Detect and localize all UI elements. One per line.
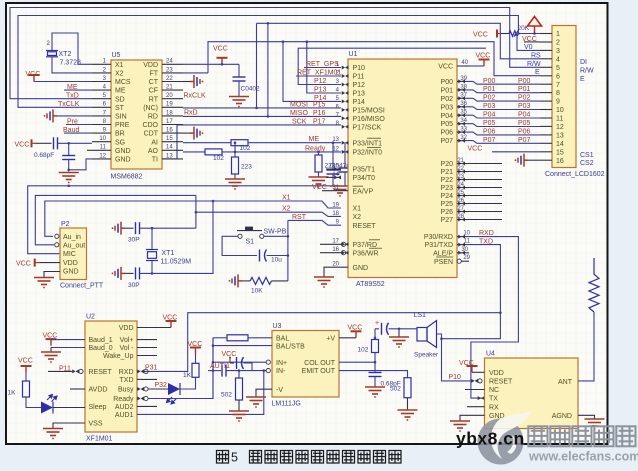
svg-text:P00: P00 [441, 79, 454, 86]
watermark elecfans CJK [528, 426, 635, 446]
svg-text:RESET: RESET [89, 369, 113, 376]
wire VCC to cap [36, 142, 52, 144]
svg-text:P03: P03 [518, 103, 531, 110]
svg-text:CS1: CS1 [580, 152, 594, 159]
svg-text:GND: GND [353, 265, 369, 272]
svg-text:P06: P06 [483, 129, 496, 136]
svg-text:P17: P17 [313, 119, 326, 126]
svg-text:16: 16 [556, 158, 564, 165]
U2 AVDD stub [70, 388, 85, 390]
svg-text:19: 19 [166, 102, 173, 108]
wire Pre stub [66, 124, 92, 126]
svg-text:AUD2: AUD2 [115, 404, 134, 411]
resistor 502 left [238, 371, 240, 378]
svg-text:PRE: PRE [115, 122, 130, 129]
svg-text:P34/T0: P34/T0 [353, 175, 376, 182]
svg-text:P32/INT0: P32/INT0 [353, 150, 383, 157]
svg-text:10K: 10K [251, 288, 263, 295]
svg-text:GND: GND [63, 268, 79, 275]
svg-text:RT: RT [149, 96, 159, 103]
connector P2 body [60, 228, 87, 280]
svg-text:102: 102 [358, 347, 369, 354]
wire Baud stub [64, 132, 92, 134]
svg-text:AUD1: AUD1 [115, 412, 134, 419]
U4 RX stub [467, 406, 485, 408]
wire SIN stub [57, 115, 92, 117]
wire XT2 top to U5 X1 [52, 33, 92, 64]
overlines [353, 138, 383, 248]
U2 Ready wire [137, 397, 144, 401]
wire SCK line [162, 125, 341, 159]
svg-text:VCC: VCC [312, 184, 327, 191]
LCD pin numbers and stubs [540, 31, 564, 165]
svg-text:6: 6 [556, 73, 560, 80]
svg-text:502: 502 [390, 386, 401, 393]
svg-text:2: 2 [556, 40, 560, 47]
svg-text:P12: P12 [314, 78, 327, 85]
svg-text:502: 502 [221, 392, 232, 399]
svg-text:P14: P14 [353, 99, 366, 106]
svg-text:CDT: CDT [144, 131, 159, 138]
svg-text:S1: S1 [246, 239, 255, 246]
wire U1 GND to ground [324, 267, 348, 277]
svg-text:GND: GND [115, 148, 131, 155]
svg-text:21: 21 [457, 158, 464, 164]
wire LCD pin2 VCC stub [524, 41, 540, 43]
svg-text:XT1: XT1 [162, 250, 175, 257]
capacitor C0402 [238, 64, 240, 77]
svg-text:28: 28 [457, 214, 464, 220]
svg-text:SIN: SIN [115, 114, 127, 121]
svg-text:P06: P06 [518, 129, 531, 136]
svg-text:RET_GPS: RET_GPS [306, 61, 339, 68]
svg-text:AT89S52: AT89S52 [356, 281, 385, 288]
svg-text:14: 14 [556, 141, 564, 148]
wire MISO RxD line [183, 115, 341, 117]
wire U3 -V to ground [256, 389, 272, 397]
svg-text:P05: P05 [518, 120, 531, 127]
svg-text:VSS: VSS [89, 421, 103, 428]
ground below 223 B [225, 179, 245, 190]
svg-text:AO: AO [148, 148, 159, 155]
svg-text:13: 13 [166, 153, 173, 159]
svg-text:IN+: IN+ [276, 360, 287, 367]
svg-text:24: 24 [457, 182, 464, 188]
svg-text:9: 9 [556, 99, 560, 106]
svg-text:P06: P06 [441, 130, 454, 137]
svg-text:VCC: VCC [188, 341, 203, 348]
wire speaker right to U4 RESET [437, 334, 442, 339]
svg-text:P16/MISO: P16/MISO [353, 116, 386, 123]
connector LCD1602 body [552, 26, 576, 168]
svg-text:X1: X1 [353, 206, 362, 213]
svg-text:23: 23 [457, 174, 464, 180]
svg-text:18: 18 [166, 110, 173, 116]
svg-text:MOSI: MOSI [290, 102, 308, 109]
svg-text:P26: P26 [441, 209, 454, 216]
svg-text:Connect_LCD1602: Connect_LCD1602 [545, 171, 605, 178]
wire P13 riser [307, 42, 341, 93]
wire LCD pin1 row [518, 33, 540, 35]
svg-text:1K: 1K [8, 390, 17, 397]
svg-text:VCC: VCC [476, 53, 491, 60]
svg-text:12: 12 [332, 146, 339, 152]
svg-text:Baud_1: Baud_1 [89, 337, 113, 344]
svg-text:P04: P04 [518, 112, 531, 119]
svg-text:26: 26 [457, 198, 464, 204]
svg-text:Sleep: Sleep [89, 404, 107, 411]
svg-text:VDD: VDD [119, 325, 134, 332]
svg-text:P05: P05 [483, 120, 496, 127]
wire U4 ANT to antenna [578, 312, 594, 381]
chip U3 LM111JG body [272, 331, 339, 398]
svg-text:SCK: SCK [292, 119, 307, 126]
wire RST line [288, 220, 341, 225]
svg-text:P11: P11 [353, 74, 365, 81]
svg-text:CDO: CDO [142, 122, 158, 129]
resistor 10K zigzag [242, 280, 250, 282]
svg-text:8: 8 [556, 90, 560, 97]
svg-text:P20: P20 [441, 161, 454, 168]
svg-text:EA/VP: EA/VP [353, 188, 374, 195]
svg-text:P00: P00 [518, 78, 531, 85]
wire bus line C [257, 23, 541, 59]
wire S1 left leg [222, 236, 257, 255]
capacitor 30P bottom [125, 272, 134, 274]
ground stub at speaker cap [398, 329, 400, 337]
svg-text:18: 18 [332, 211, 339, 217]
svg-text:30P: 30P [128, 237, 140, 244]
svg-text:X2: X2 [115, 71, 124, 78]
wire P2 GND [44, 272, 60, 278]
U1 P00-P07 bus to LCD [457, 80, 465, 82]
svg-text:P15/MOSI: P15/MOSI [353, 108, 385, 115]
wire VDD row to C0402 [183, 63, 239, 65]
svg-text:TI: TI [152, 157, 158, 164]
svg-text:PSEN: PSEN [434, 259, 453, 266]
svg-text:DI: DI [580, 59, 587, 66]
chip U5 MSM6882 body [111, 60, 162, 169]
svg-text:Speaker: Speaker [414, 352, 439, 359]
svg-text:COL OUT: COL OUT [304, 360, 336, 367]
svg-text:TX: TX [489, 396, 498, 403]
svg-text:VCC: VCC [222, 351, 237, 358]
U1 left stubs [326, 168, 341, 170]
U1 left pin rows [332, 62, 385, 272]
wire 102 top to speaker line [374, 329, 376, 338]
power arrow VCC top [528, 17, 542, 27]
svg-text:P24: P24 [441, 193, 454, 200]
svg-text:24: 24 [166, 59, 173, 65]
pot wiper to V0 [515, 30, 520, 36]
wire Ready line to U1 P32 [222, 151, 341, 153]
wire 30P top to X2 riser [140, 227, 196, 229]
wire loop B top [18, 16, 518, 108]
wire U5 pin12 GND route [69, 159, 92, 170]
svg-text:www.elecfans.com: www.elecfans.com [528, 450, 638, 464]
svg-text:P07: P07 [483, 137, 496, 144]
U2 AUD1 wire [137, 371, 264, 415]
svg-text:RxCLK: RxCLK [184, 92, 207, 99]
svg-text:RS: RS [531, 52, 541, 59]
wire P14 riser [283, 42, 341, 102]
svg-text:VCC: VCC [16, 261, 31, 268]
wire ME line to U1 P33 [248, 142, 341, 144]
U2 RXD pin bubble [137, 369, 144, 373]
svg-text:C0402: C0402 [241, 86, 261, 93]
svg-text:VCC: VCC [438, 64, 453, 71]
wire X1 jog to U1 [322, 201, 341, 208]
wire bus line E [298, 48, 486, 84]
chip U4 body [485, 358, 579, 429]
svg-text:(NC): (NC) [143, 105, 158, 112]
svg-text:AI: AI [151, 139, 158, 146]
U4 NC stub [465, 389, 485, 391]
svg-text:AUTI1: AUTI1 [210, 363, 230, 370]
svg-text:25: 25 [457, 190, 464, 196]
svg-text:XF1M01: XF1M01 [86, 436, 113, 443]
wire 30P bottom to X1 riser [140, 201, 214, 273]
svg-text:P27: P27 [441, 217, 454, 224]
ground below C0402 [229, 97, 249, 108]
svg-text:P10: P10 [449, 374, 462, 381]
svg-text:U4: U4 [486, 351, 495, 358]
wire VCC to MCS [34, 81, 92, 83]
wire line to Au_out [35, 195, 196, 244]
svg-text:U5: U5 [112, 52, 121, 59]
svg-text:P23: P23 [441, 185, 454, 192]
svg-text:VCC: VCC [348, 325, 363, 332]
wire U4 AGND to ground [578, 415, 595, 419]
svg-text:CS2: CS2 [580, 160, 594, 167]
svg-text:3: 3 [556, 48, 560, 55]
wire X2 line [196, 212, 341, 216]
svg-text:5: 5 [231, 451, 238, 465]
node junctions top [255, 22, 308, 118]
svg-text:15: 15 [166, 136, 173, 142]
svg-text:VDD: VDD [63, 260, 78, 267]
svg-text:0.68pF: 0.68pF [34, 152, 54, 159]
svg-text:MCS: MCS [115, 79, 131, 86]
watermark elecfans logo [478, 411, 533, 465]
svg-text:Wake_Up: Wake_Up [103, 353, 134, 360]
caption figure 5 fake CJK [217, 451, 229, 464]
wire RXD to U4 TX [467, 237, 518, 399]
signal ground LCD pin16 [515, 154, 528, 167]
svg-text:R/W: R/W [580, 67, 594, 74]
node dots [67, 142, 70, 187]
svg-text:12: 12 [99, 153, 106, 159]
wire LCD pin15 VCC [492, 151, 540, 153]
svg-text:RXD: RXD [479, 230, 494, 237]
svg-text:U2: U2 [86, 314, 95, 321]
svg-text:RX: RX [489, 404, 499, 411]
svg-text:27: 27 [457, 206, 464, 212]
svg-text:RD: RD [148, 114, 158, 121]
U2 Busy pin to LED P32 [137, 387, 144, 391]
svg-text:15: 15 [556, 149, 564, 156]
svg-text:CT: CT [149, 79, 159, 86]
svg-text:P04: P04 [441, 113, 454, 120]
svg-text:SW-PB: SW-PB [264, 229, 287, 236]
svg-text:MISO: MISO [290, 110, 308, 117]
svg-text:14: 14 [166, 145, 173, 151]
svg-text:SD: SD [115, 96, 125, 103]
wire MISO riser V2 [267, 23, 269, 116]
U5 pin stubs and names [92, 59, 183, 164]
resistor 102 horizontal A [231, 140, 248, 146]
signal ground at 10K [229, 274, 242, 287]
svg-text:EMIT OUT: EMIT OUT [302, 368, 336, 375]
svg-text:P13: P13 [353, 91, 366, 98]
wire cross link [234, 143, 236, 157]
signal ground at U5 CT [190, 75, 203, 88]
svg-text:21: 21 [166, 85, 173, 91]
wire AO row [183, 151, 205, 153]
wire cap to SG pin [58, 142, 93, 144]
svg-text:P05: P05 [441, 121, 454, 128]
svg-text:P01: P01 [518, 86, 531, 93]
svg-text:1K: 1K [183, 372, 192, 379]
svg-text:5: 5 [556, 65, 560, 72]
svg-text:17: 17 [166, 119, 173, 125]
wire U4 GND to ground [460, 415, 485, 421]
signal ground at U5 SIN [44, 109, 57, 122]
svg-text:P12: P12 [353, 82, 366, 89]
svg-text:U3: U3 [273, 323, 282, 330]
svg-text:P15: P15 [313, 102, 326, 109]
svg-text:ALE/P: ALE/P [433, 250, 453, 257]
svg-text:TxCLK: TxCLK [58, 101, 80, 108]
wire U5 pin11 stub [87, 149, 92, 151]
svg-text:1: 1 [556, 31, 560, 38]
svg-text:E: E [580, 76, 585, 83]
wire MOSI riser V1 [256, 23, 258, 108]
svg-text:VCC: VCC [18, 358, 33, 365]
svg-text:P01: P01 [441, 88, 454, 95]
svg-text:P31: P31 [145, 365, 158, 372]
svg-text:P07: P07 [518, 137, 531, 144]
wire cap to ground [68, 160, 70, 172]
svg-text:P01: P01 [483, 86, 496, 93]
svg-text:BAL: BAL [276, 335, 289, 342]
wire junction drop [68, 143, 70, 155]
ground at U2 Baud_0 [51, 347, 85, 349]
resistor 102 horizontal B [205, 149, 222, 155]
svg-text:13: 13 [332, 137, 339, 143]
svg-text:29: 29 [463, 255, 470, 261]
resistor 502 right [404, 378, 411, 398]
svg-text:P22: P22 [441, 177, 454, 184]
svg-text:P35/T1: P35/T1 [353, 167, 376, 174]
svg-text:VCC: VCC [213, 46, 228, 53]
svg-text:VCC: VCC [473, 32, 488, 39]
svg-text:P21: P21 [441, 169, 454, 176]
svg-text:12: 12 [556, 124, 564, 131]
wire U3 +V to VCC [339, 337, 356, 339]
svg-text:TXD: TXD [120, 377, 134, 384]
svg-text:P03: P03 [441, 104, 454, 111]
vertical link at 213 [212, 338, 214, 399]
svg-text:CF: CF [149, 88, 158, 95]
wire FT row to riser [183, 72, 208, 74]
svg-text:30P: 30P [128, 282, 140, 289]
svg-text:-V: -V [276, 387, 283, 394]
svg-text:P03: P03 [483, 103, 496, 110]
svg-text:BAL/STB: BAL/STB [276, 343, 305, 350]
svg-text:P30/RXD: P30/RXD [424, 234, 453, 241]
svg-text:SG: SG [115, 139, 125, 146]
antenna zigzag [589, 258, 599, 312]
svg-text:RXD: RXD [119, 369, 134, 376]
wire U2 VSS to ground [53, 423, 85, 429]
resistor 1K left [23, 381, 30, 397]
svg-text:4: 4 [556, 56, 560, 63]
svg-text:Baud_0: Baud_0 [89, 345, 113, 352]
LED D1 [41, 402, 53, 414]
svg-text:ANT: ANT [558, 379, 573, 386]
svg-text:16: 16 [166, 128, 173, 134]
svg-text:AVDD: AVDD [89, 387, 108, 394]
wire line to MIC [28, 186, 330, 254]
U1 P20-P27 stubs [457, 163, 502, 165]
svg-text:P13: P13 [314, 87, 327, 94]
svg-text:10u: 10u [271, 257, 282, 264]
switch S1 SW-PB [237, 230, 262, 232]
wire RET_XF1M01 [296, 75, 341, 77]
chip U1 AT89S52 body [348, 59, 457, 278]
svg-text:P02: P02 [483, 95, 496, 102]
ground below caps [330, 186, 350, 197]
wire BAL feed with resistor [213, 337, 227, 339]
wire RST riser [287, 220, 289, 281]
signal ground at U5 CDT [190, 127, 203, 140]
svg-text:11: 11 [100, 145, 107, 151]
svg-text:P36/WR: P36/WR [353, 250, 379, 257]
ground below P2 [34, 278, 54, 289]
svg-text:ME: ME [309, 136, 320, 143]
svg-text:40: 40 [461, 60, 468, 66]
svg-text:+: + [375, 320, 379, 327]
svg-text:Busy: Busy [118, 387, 134, 394]
wire XT2 bottom to U5 X2 [52, 57, 92, 73]
capacitor 10u polarized [260, 250, 267, 262]
svg-text:Vol+: Vol+ [120, 337, 134, 344]
svg-text:22: 22 [166, 76, 173, 82]
svg-text:X2: X2 [282, 206, 291, 213]
svg-text:Ready: Ready [113, 396, 134, 403]
svg-text:X2: X2 [353, 214, 362, 221]
svg-text:13: 13 [556, 133, 564, 140]
svg-text:P00: P00 [483, 78, 496, 85]
wire U2 VDD to VCC [137, 327, 171, 329]
P2 pin bubbles [55, 234, 59, 238]
wire loop A top [10, 8, 540, 99]
svg-text:10: 10 [99, 136, 106, 142]
resistor 102 vertical [374, 338, 376, 340]
svg-text:P07: P07 [441, 138, 454, 145]
svg-text:P32: P32 [155, 382, 168, 389]
svg-text:22: 22 [457, 166, 464, 172]
capacitor 0.68pF series [54, 137, 58, 149]
wire RET_GPS [304, 67, 341, 69]
svg-text:7: 7 [556, 82, 560, 89]
wire EMIT OUT to 502 [339, 371, 408, 378]
crystal XT2 [46, 51, 58, 57]
capacitor shunt below [62, 156, 75, 160]
wire X2 riser [195, 195, 197, 228]
svg-text:P17/SCK: P17/SCK [353, 124, 382, 131]
